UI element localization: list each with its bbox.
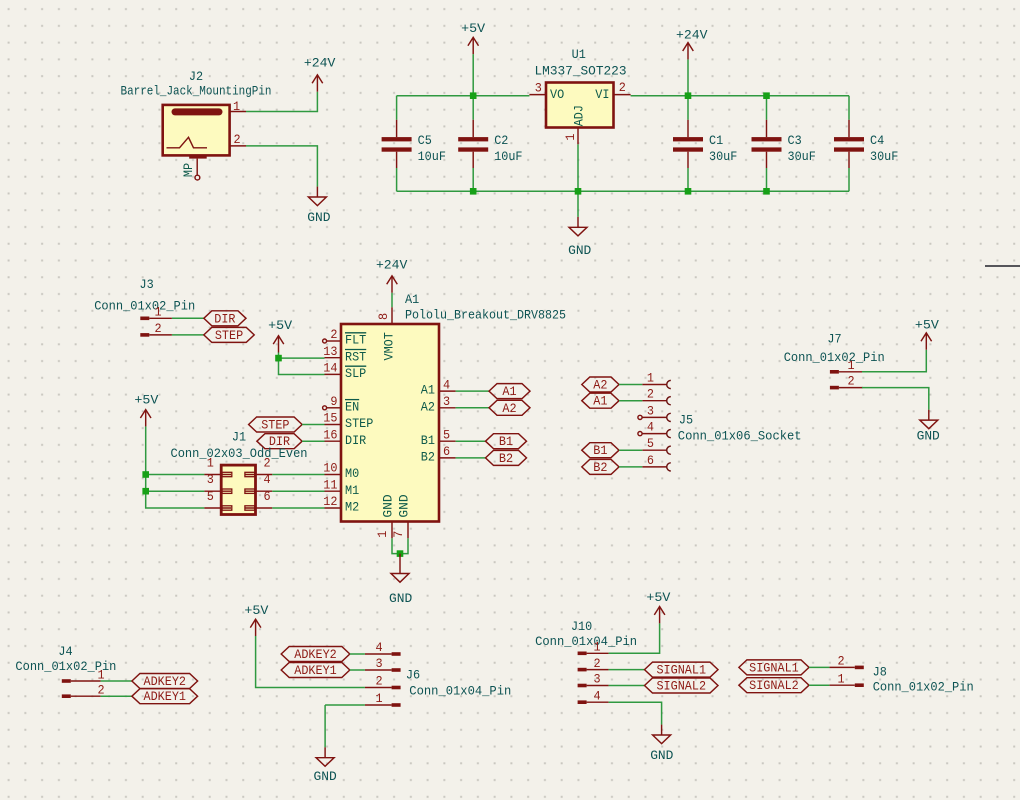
- wire: [324, 705, 326, 747]
- J10 pin 3: [578, 672, 609, 688]
- svg-text:GND: GND: [314, 769, 337, 784]
- wire (to J1 pin1): [146, 474, 205, 476]
- J3 pin 1: [140, 304, 172, 320]
- capacitor C1 30uF: [673, 120, 737, 168]
- svg-text:+24V: +24V: [376, 257, 408, 272]
- svg-text:1: 1: [837, 671, 844, 686]
- svg-text:A2: A2: [421, 399, 435, 414]
- svg-text:30uF: 30uF: [788, 149, 816, 164]
- wire: [862, 350, 926, 372]
- junction: [142, 488, 149, 495]
- wire: [350, 669, 365, 671]
- wire (J1-6 to M2): [272, 507, 324, 509]
- svg-text:2: 2: [330, 327, 337, 342]
- capacitor C4 30uF: [834, 120, 898, 168]
- wire: [456, 457, 486, 459]
- svg-text:GND: GND: [650, 748, 673, 763]
- svg-text:M1: M1: [345, 483, 359, 498]
- svg-text:VO: VO: [550, 87, 564, 102]
- svg-text:DIR: DIR: [214, 311, 235, 326]
- net label STEP: [249, 417, 303, 433]
- J2 pin 1: [230, 99, 246, 114]
- svg-text:6: 6: [263, 489, 270, 504]
- connector J3 Conn_01x02_Pin: [94, 277, 195, 314]
- U1 pin 2 VI: [595, 80, 630, 102]
- svg-text:+5V: +5V: [915, 318, 939, 333]
- J1 pin 2: [245, 456, 272, 477]
- J7 pin 2: [830, 374, 863, 390]
- ground: [650, 725, 673, 763]
- svg-text:VMOT: VMOT: [382, 332, 397, 360]
- junction: [142, 471, 149, 478]
- svg-text:A1: A1: [421, 383, 435, 398]
- svg-text:B2: B2: [499, 451, 513, 466]
- wire: [396, 96, 398, 120]
- svg-text:ADKEY1: ADKEY1: [294, 663, 337, 678]
- svg-text:M0: M0: [345, 466, 359, 481]
- J3 pin 2: [140, 321, 172, 337]
- net label A2: [582, 377, 619, 393]
- svg-text:ADKEY2: ADKEY2: [144, 674, 187, 689]
- svg-text:1: 1: [847, 358, 854, 373]
- svg-text:16: 16: [323, 427, 337, 442]
- IC A1 Pololu_Breakout_DRV8825: [341, 324, 439, 522]
- svg-text:A1: A1: [593, 394, 607, 409]
- svg-text:+5V: +5V: [646, 590, 670, 605]
- svg-text:2: 2: [847, 374, 854, 389]
- svg-text:12: 12: [323, 494, 337, 509]
- svg-text:SLP: SLP: [345, 366, 366, 381]
- svg-text:GND: GND: [568, 243, 591, 258]
- svg-text:+5V: +5V: [268, 318, 292, 333]
- wire: [848, 168, 850, 191]
- A1 pin 3 A2: [421, 394, 456, 414]
- J1 pin 6: [245, 489, 272, 510]
- connector J2 Barrel_Jack_MountingPin: [163, 105, 230, 155]
- wire: [619, 466, 642, 468]
- svg-text:A1: A1: [502, 384, 516, 399]
- svg-text:J3: J3: [140, 277, 154, 292]
- ground: [568, 217, 591, 258]
- svg-text:U1: U1: [572, 47, 586, 62]
- svg-text:10: 10: [323, 461, 337, 476]
- wire: [619, 384, 642, 386]
- A1 pin 14 SLP: [323, 361, 366, 381]
- svg-text:J7: J7: [827, 332, 841, 347]
- svg-text:SIGNAL2: SIGNAL2: [749, 678, 799, 693]
- wire (J1-4 to M1): [272, 490, 324, 492]
- U1 reference text: [535, 47, 627, 79]
- U1 pin 3 VO: [529, 81, 564, 102]
- svg-text:+24V: +24V: [304, 56, 336, 71]
- svg-text:6: 6: [443, 444, 450, 459]
- net label A2: [489, 400, 530, 416]
- J10 pin 1: [578, 640, 609, 656]
- voltage regulator U1 LM337_SOT223: [546, 83, 614, 128]
- ground: [314, 747, 337, 784]
- svg-text:LM337_SOT223: LM337_SOT223: [535, 64, 627, 79]
- svg-text:Conn_01x06_Socket: Conn_01x06_Socket: [678, 429, 802, 444]
- svg-text:B1: B1: [593, 443, 607, 458]
- connector J4 Conn_01x02_Pin: [15, 644, 116, 674]
- svg-text:10uF: 10uF: [418, 149, 446, 164]
- wire: [246, 92, 317, 112]
- J6 pin 4: [365, 640, 401, 656]
- svg-text:1: 1: [154, 304, 161, 319]
- svg-text:C4: C4: [870, 133, 884, 148]
- J2 pin 2: [230, 132, 246, 147]
- wire: [766, 168, 768, 191]
- wire: [172, 334, 204, 336]
- wire: [619, 449, 642, 451]
- connector J8 Conn_01x02_Pin: [873, 665, 974, 695]
- svg-text:5: 5: [443, 427, 450, 442]
- junction: [470, 188, 477, 195]
- wire: [302, 440, 324, 442]
- svg-text:2: 2: [593, 656, 600, 671]
- J2 mounting pin MP: [181, 155, 207, 180]
- J4 pin 1: [62, 668, 105, 683]
- svg-text:30uF: 30uF: [709, 149, 737, 164]
- J4 pin 2: [62, 683, 105, 698]
- A1 reference text: [405, 292, 566, 323]
- power symbol +24V: [304, 56, 336, 92]
- J5 pin 1: [642, 371, 671, 389]
- power symbol +5V: [134, 392, 158, 426]
- svg-text:C5: C5: [418, 133, 432, 148]
- svg-text:3: 3: [593, 672, 600, 687]
- svg-text:FLT: FLT: [345, 333, 366, 348]
- svg-text:SIGNAL1: SIGNAL1: [656, 663, 706, 678]
- svg-text:15: 15: [323, 411, 337, 426]
- svg-text:1: 1: [233, 99, 240, 114]
- wire: [609, 685, 645, 687]
- svg-text:2: 2: [263, 456, 270, 471]
- A1 pin 5 B1: [421, 427, 456, 447]
- power symbol +24V: [676, 27, 708, 59]
- svg-text:6: 6: [647, 453, 654, 468]
- svg-text:1: 1: [375, 691, 382, 706]
- junction: [275, 355, 282, 362]
- svg-text:3: 3: [207, 472, 214, 487]
- J7 pin 1: [830, 358, 863, 374]
- svg-text:J6: J6: [406, 668, 420, 683]
- net label ADKEY1: [281, 663, 350, 679]
- net label A1: [489, 384, 530, 400]
- J10 pin 4: [578, 688, 609, 704]
- svg-text:13: 13: [323, 344, 337, 359]
- svg-text:10uF: 10uF: [494, 149, 522, 164]
- J10 pin 2: [578, 656, 609, 672]
- svg-text:STEP: STEP: [215, 328, 243, 343]
- net label SIGNAL1: [645, 662, 719, 678]
- junction: [470, 92, 477, 99]
- wire (VI rail): [631, 95, 849, 97]
- A1 pin 15 STEP: [323, 411, 373, 431]
- J6 pin 2: [365, 674, 401, 690]
- svg-text:2: 2: [154, 321, 161, 336]
- wire: [472, 168, 474, 191]
- svg-text:STEP: STEP: [261, 418, 289, 433]
- svg-text:J2: J2: [189, 69, 203, 84]
- svg-text:B2: B2: [421, 450, 435, 465]
- svg-text:4: 4: [263, 472, 270, 487]
- svg-text:RST: RST: [345, 349, 366, 364]
- capacitor C5 10uF: [382, 120, 446, 168]
- wire: [472, 96, 474, 120]
- wire (GND pins): [392, 538, 408, 553]
- net label B1: [582, 443, 619, 459]
- ground: [917, 410, 940, 444]
- wire: [687, 59, 689, 95]
- svg-text:GND: GND: [381, 494, 396, 517]
- wire: [609, 669, 645, 671]
- sheet divider line: [985, 265, 1020, 267]
- junction: [397, 550, 404, 557]
- svg-text:B1: B1: [421, 433, 435, 448]
- wire: [809, 684, 829, 686]
- svg-text:4: 4: [593, 688, 600, 703]
- svg-text:J4: J4: [58, 644, 72, 659]
- svg-text:J1: J1: [232, 429, 246, 444]
- svg-text:3: 3: [647, 403, 654, 418]
- connector J6 Conn_01x04_Pin: [406, 668, 511, 699]
- svg-text:Barrel_Jack_MountingPin: Barrel_Jack_MountingPin: [121, 84, 272, 99]
- connector J10 Conn_01x04_Pin: [535, 619, 637, 649]
- J2 reference text: [121, 69, 272, 99]
- connector J5 Conn_01x06_Socket: [678, 413, 802, 444]
- A1 pin 6 B2: [421, 444, 456, 464]
- svg-text:M2: M2: [345, 500, 359, 515]
- svg-text:1: 1: [593, 640, 600, 655]
- wire (to J1 pin3): [146, 490, 205, 492]
- wire: [687, 96, 689, 120]
- svg-text:2: 2: [375, 674, 382, 689]
- svg-text:SIGNAL1: SIGNAL1: [749, 660, 799, 675]
- svg-text:GND: GND: [917, 429, 940, 444]
- J5 pin 6: [642, 453, 671, 471]
- wire: [848, 96, 850, 120]
- svg-text:1: 1: [207, 456, 214, 471]
- svg-text:2: 2: [619, 80, 626, 95]
- svg-text:Conn_02x03_Odd_Even: Conn_02x03_Odd_Even: [171, 446, 308, 461]
- J1 pin 1: [204, 456, 231, 477]
- wire: [101, 680, 132, 682]
- A1 pin 12 M2: [323, 494, 359, 514]
- junction: [763, 92, 770, 99]
- J8 pin 1: [829, 671, 863, 687]
- J8 pin 2: [829, 654, 863, 670]
- wire (J1-2 to M0): [272, 474, 324, 476]
- svg-text:5: 5: [207, 489, 214, 504]
- svg-text:ADJ: ADJ: [571, 105, 586, 126]
- J1 pin 4: [245, 472, 272, 493]
- net label STEP: [204, 327, 254, 343]
- J6 pin 3: [365, 656, 401, 672]
- wire: [350, 653, 365, 655]
- svg-text:5: 5: [647, 436, 654, 451]
- svg-text:+5V: +5V: [244, 603, 268, 618]
- wire: [391, 293, 393, 308]
- svg-text:ADKEY1: ADKEY1: [144, 689, 187, 704]
- svg-text:+5V: +5V: [134, 392, 158, 407]
- J5 pin 3: [638, 403, 671, 421]
- capacitor C3 30uF: [752, 120, 816, 168]
- svg-text:GND: GND: [389, 591, 412, 606]
- wire (+5V to J6-2): [256, 636, 365, 688]
- A1 pin 2 FLT: [323, 327, 367, 347]
- A1 pin 9 EN: [323, 394, 360, 414]
- wire: [246, 146, 317, 187]
- A1 pin 13 RST: [323, 344, 366, 364]
- wire: [396, 168, 398, 191]
- net label ADKEY1: [132, 689, 198, 705]
- wire (ground rail): [397, 190, 849, 192]
- svg-text:A2: A2: [593, 378, 607, 393]
- svg-text:4: 4: [443, 377, 450, 392]
- wire: [862, 388, 929, 410]
- svg-text:Conn_01x02_Pin: Conn_01x02_Pin: [784, 350, 885, 365]
- svg-text:+5V: +5V: [461, 21, 485, 36]
- net label DIR: [204, 311, 246, 327]
- A1 pin 1 GND: [375, 494, 396, 538]
- svg-text:GND: GND: [397, 494, 412, 517]
- junction: [685, 92, 692, 99]
- svg-text:3: 3: [443, 394, 450, 409]
- net label ADKEY2: [281, 647, 350, 663]
- svg-text:Pololu_Breakout_DRV8825: Pololu_Breakout_DRV8825: [405, 308, 566, 323]
- svg-text:Conn_01x04_Pin: Conn_01x04_Pin: [409, 684, 511, 699]
- wire: [687, 168, 689, 191]
- wire (VO rail): [397, 95, 530, 97]
- svg-text:1: 1: [375, 531, 390, 538]
- wire (+5V to RST): [279, 357, 325, 359]
- svg-text:30uF: 30uF: [870, 149, 898, 164]
- svg-text:GND: GND: [307, 210, 330, 225]
- wire: [809, 666, 829, 668]
- svg-text:DIR: DIR: [345, 433, 366, 448]
- A1 pin 16 DIR: [323, 427, 366, 447]
- net label A1: [582, 393, 619, 409]
- wire (J10-4 to GND): [609, 702, 662, 724]
- net label SIGNAL2: [645, 678, 719, 694]
- wire: [619, 400, 642, 402]
- net label B1: [486, 434, 527, 450]
- svg-text:1: 1: [647, 371, 654, 386]
- A1 pin 11 M1: [323, 477, 359, 497]
- svg-text:14: 14: [323, 361, 337, 376]
- svg-text:C1: C1: [709, 133, 723, 148]
- svg-text:Conn_01x04_Pin: Conn_01x04_Pin: [535, 634, 637, 649]
- svg-text:B2: B2: [593, 460, 607, 475]
- wire: [577, 144, 579, 217]
- net label B2: [582, 459, 619, 475]
- svg-text:1: 1: [563, 133, 578, 140]
- power symbol +24V: [376, 257, 408, 292]
- power symbol +5V: [268, 318, 292, 353]
- svg-text:A1: A1: [405, 292, 419, 307]
- svg-text:J5: J5: [679, 413, 693, 428]
- J5 pin 5: [642, 436, 671, 454]
- svg-text:VI: VI: [595, 87, 609, 102]
- svg-text:Conn_01x02_Pin: Conn_01x02_Pin: [94, 299, 195, 314]
- J1 pin 3: [204, 472, 231, 493]
- J5 pin 2: [642, 387, 671, 405]
- svg-text:2: 2: [233, 132, 240, 147]
- wire: [472, 54, 474, 96]
- net label DIR: [257, 434, 302, 450]
- wire (+5V to SLP): [279, 353, 325, 375]
- net label ADKEY2: [132, 674, 198, 690]
- svg-text:7: 7: [391, 531, 406, 538]
- wire: [456, 440, 486, 442]
- junction: [575, 188, 582, 195]
- power symbol +5V: [646, 590, 670, 623]
- wire: [172, 317, 204, 319]
- wire: [456, 407, 489, 409]
- wire: [456, 390, 489, 392]
- svg-text:+24V: +24V: [676, 27, 708, 42]
- J6 pin 1: [365, 691, 401, 707]
- svg-text:MP: MP: [181, 163, 196, 177]
- svg-text:Conn_01x02_Pin: Conn_01x02_Pin: [873, 680, 974, 695]
- J5 pin 4: [638, 420, 671, 438]
- power symbol +5V: [244, 603, 268, 636]
- wire: [302, 424, 324, 426]
- svg-text:J8: J8: [873, 665, 887, 680]
- capacitor C2 10uF: [458, 120, 522, 168]
- A1 pin 7 GND: [391, 494, 412, 538]
- svg-text:3: 3: [535, 81, 542, 96]
- A1 pin 4 A1: [421, 377, 456, 397]
- wire: [101, 695, 132, 697]
- svg-text:4: 4: [375, 640, 382, 655]
- svg-text:ADKEY2: ADKEY2: [294, 647, 337, 662]
- ground: [307, 187, 330, 225]
- svg-text:B1: B1: [499, 434, 513, 449]
- net label B2: [486, 450, 527, 466]
- svg-text:2: 2: [647, 387, 654, 402]
- svg-text:A2: A2: [502, 401, 516, 416]
- net label SIGNAL2: [739, 678, 809, 694]
- svg-text:SIGNAL2: SIGNAL2: [656, 679, 706, 694]
- junction: [763, 188, 770, 195]
- J1 reference text: [171, 429, 308, 461]
- svg-text:3: 3: [375, 656, 382, 671]
- J1 pin 5: [204, 489, 231, 510]
- net label SIGNAL1: [739, 660, 809, 676]
- wire (J6-1 to GND): [325, 704, 365, 706]
- power symbol +5V: [461, 21, 485, 54]
- power symbol +5V: [915, 318, 939, 350]
- A1 pin 8 VMOT: [376, 307, 397, 360]
- svg-text:2: 2: [837, 654, 844, 669]
- svg-text:STEP: STEP: [345, 416, 373, 431]
- svg-text:11: 11: [323, 477, 337, 492]
- wire (+5V rail to J1 pin5/M2): [146, 426, 205, 508]
- svg-text:4: 4: [647, 420, 654, 435]
- svg-text:C2: C2: [494, 133, 508, 148]
- svg-text:EN: EN: [345, 399, 359, 414]
- U1 pin 1 ADJ: [563, 105, 586, 144]
- svg-text:C3: C3: [788, 133, 802, 148]
- svg-text:J10: J10: [571, 619, 592, 634]
- svg-text:8: 8: [376, 313, 391, 320]
- svg-text:9: 9: [330, 394, 337, 409]
- wire: [766, 96, 768, 120]
- wire (J10-1 to +5V): [609, 623, 660, 653]
- ground: [389, 554, 412, 606]
